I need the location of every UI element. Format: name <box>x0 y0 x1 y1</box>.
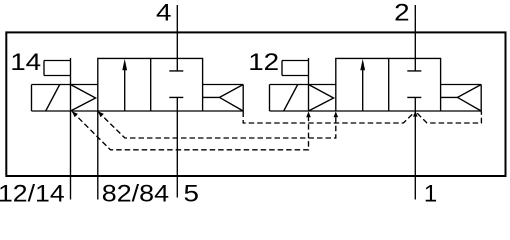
svg-text:2: 2 <box>394 0 409 26</box>
svg-text:1: 1 <box>424 181 437 208</box>
svg-text:12: 12 <box>248 48 279 76</box>
svg-text:12/14: 12/14 <box>0 181 65 208</box>
svg-text:4: 4 <box>156 0 171 26</box>
svg-text:5: 5 <box>184 179 199 207</box>
svg-text:14: 14 <box>10 48 41 76</box>
svg-text:82/84: 82/84 <box>102 181 169 207</box>
